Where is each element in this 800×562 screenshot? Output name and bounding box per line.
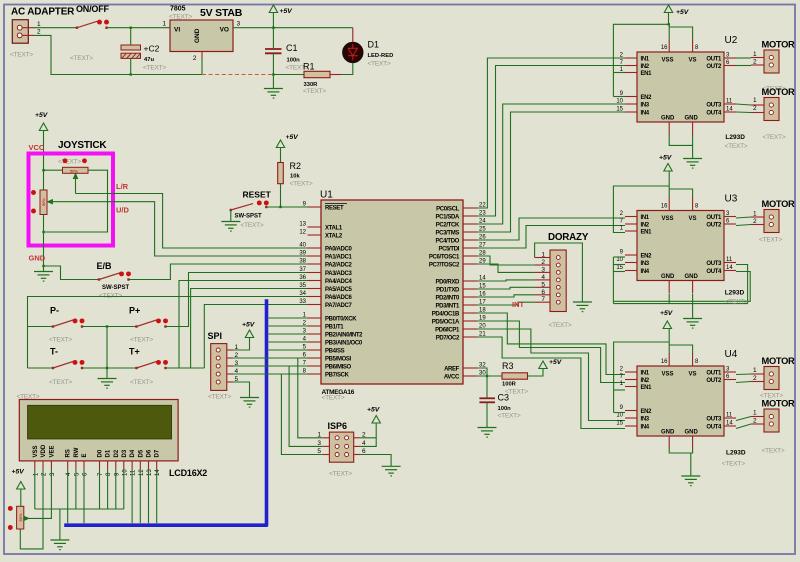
- wire R2 top lead: [280, 148, 282, 163]
- svg-text:PC7/TOSC2: PC7/TOSC2: [429, 262, 460, 268]
- +5V power symbol (ISP6): [372, 416, 380, 424]
- U1 pin 33 stub: [308, 304, 322, 306]
- switch P-: [52, 318, 85, 327]
- svg-text:D1: D1: [368, 40, 380, 50]
- +5V power symbol (U2): [664, 5, 672, 13]
- ground (LCD): [50, 540, 69, 550]
- svg-text:ON/OFF: ON/OFF: [76, 4, 109, 14]
- svg-text:<TEXT>: <TEXT>: [130, 379, 153, 386]
- capacitor C2: [121, 45, 141, 58]
- svg-text:MOTOR: MOTOR: [762, 399, 796, 409]
- wire L/R signal wire: [76, 194, 322, 249]
- wire PA7 riser: [204, 305, 321, 369]
- switch T-: [52, 360, 85, 369]
- wire C3 to ground: [486, 402, 488, 427]
- switch SW1 ON/OFF: [76, 20, 109, 29]
- svg-text:11: 11: [131, 469, 137, 476]
- wire pot LR left end to rail: [44, 169, 63, 171]
- U1 pin 16 stub: [463, 296, 477, 298]
- wire U2 EN2 wire: [613, 96, 625, 98]
- svg-text:VO: VO: [220, 27, 229, 34]
- wire U3 VS loop: [669, 189, 692, 198]
- svg-text:PD1/TXD: PD1/TXD: [436, 287, 460, 293]
- motor driver U4 L293D: [616, 353, 736, 449]
- wire LCD RS to bus: [67, 469, 69, 524]
- wire U3 GND1 join: [668, 294, 670, 304]
- svg-text:DORAZY: DORAZY: [548, 232, 589, 243]
- ground (U3): [683, 319, 702, 329]
- svg-text:2: 2: [37, 29, 41, 36]
- wire LCD VDD to pot bottom: [20, 469, 43, 549]
- LCD display LCD16X2: [19, 400, 178, 461]
- ground (buttons): [98, 379, 117, 389]
- wire ON/OFF to 7805 VI: [107, 27, 171, 29]
- connector J1 AC ADAPTER: [12, 20, 28, 44]
- svg-text:LCD16X2: LCD16X2: [169, 468, 207, 478]
- svg-text:RW: RW: [74, 447, 80, 457]
- wire C1 bottom lead: [272, 53, 274, 74]
- ISP6 pin6 stub: [354, 454, 361, 456]
- svg-text:PB1/T1: PB1/T1: [325, 324, 344, 330]
- wire PC3 to U2 IN4: [477, 112, 625, 232]
- svg-text:PB2/AIN0/INT2: PB2/AIN0/INT2: [325, 332, 363, 338]
- wire bus entry PB row 326: [269, 325, 308, 327]
- switch RESET SW-SPST: [230, 200, 269, 211]
- svg-text:L293D: L293D: [725, 290, 745, 297]
- U1 pin 24 stub: [463, 223, 477, 225]
- +5V power symbol (U4): [663, 321, 671, 329]
- wire U3 OUT3 loop: [736, 265, 748, 304]
- wire P- left wire: [28, 326, 54, 328]
- svg-text:PA6/ADC6: PA6/ADC6: [325, 295, 352, 301]
- svg-text:3: 3: [541, 266, 545, 273]
- svg-text:PB7/SCK: PB7/SCK: [325, 372, 350, 378]
- wire bus entry PB row 342: [269, 341, 308, 343]
- wire LCD gnd stem: [59, 509, 61, 540]
- wire U4 OUT2 to motor: [736, 382, 751, 383]
- wire U4 OUT4 to motor: [736, 424, 751, 429]
- potentiometer RV-UD vertical: [40, 190, 47, 215]
- U1 pin 14 stub: [463, 280, 477, 282]
- LCD pin RS stub: [67, 461, 69, 469]
- wire PC5 to U3 IN2: [477, 226, 625, 249]
- wire LCD gnd rail: [35, 508, 124, 510]
- svg-text:XTAL2: XTAL2: [325, 233, 343, 239]
- svg-text:<TEXT>: <TEXT>: [763, 134, 786, 141]
- svg-text:PB6/MISO: PB6/MISO: [325, 364, 352, 370]
- DORAZY pin 7 stub: [535, 301, 550, 303]
- ground (SPI): [240, 398, 259, 408]
- svg-text:<TEXT>: <TEXT>: [303, 88, 326, 95]
- U1 pin 2 stub: [308, 325, 322, 327]
- U1 pin 26 stub: [463, 239, 477, 241]
- wire bus entry PB row 318: [269, 317, 308, 319]
- U1 pin 5 stub: [308, 349, 322, 351]
- LCD pin D3 stub: [123, 461, 125, 469]
- svg-text:12: 12: [299, 230, 306, 236]
- wire U2 OUT4 to motor: [736, 111, 751, 114]
- U1 pin 8 stub: [308, 373, 322, 375]
- LCD pin VSS stub: [34, 461, 36, 469]
- wire J1 pin1 to ON/OFF switch: [34, 27, 77, 29]
- wire C2 top lead: [130, 28, 132, 45]
- wire T- right to center: [82, 367, 107, 369]
- svg-text:14: 14: [155, 469, 161, 476]
- svg-text:U4: U4: [725, 349, 738, 360]
- wire T+ left wire: [107, 367, 137, 369]
- U1 pin 30 stub: [463, 375, 477, 377]
- svg-text:+5V: +5V: [367, 407, 381, 414]
- switch P+: [135, 318, 168, 327]
- ground (C3): [478, 428, 497, 438]
- svg-text:5V STAB: 5V STAB: [200, 7, 243, 19]
- svg-text:+5V: +5V: [242, 322, 256, 329]
- svg-text:PC4/TDO: PC4/TDO: [435, 238, 459, 244]
- wire U4 EN1 wire: [614, 389, 625, 391]
- wire PC2 to U2 IN3: [477, 104, 625, 224]
- wire ISP6 pin2 to +5V: [360, 423, 376, 438]
- wire U3 bottom rail: [613, 303, 747, 305]
- svg-text:D1: D1: [106, 449, 112, 457]
- wire T- signal riser to PA5: [191, 289, 321, 369]
- ground (U4): [681, 476, 700, 486]
- U1 pin 7 stub: [308, 365, 322, 367]
- connector MOTOR (U4 lower): [751, 409, 779, 432]
- wire U3 VSS supply: [668, 171, 669, 198]
- wire R3 to +5V: [528, 369, 544, 377]
- resistor R3: [502, 373, 528, 379]
- svg-text:R2: R2: [290, 161, 302, 171]
- wire U4 VS loop: [669, 345, 692, 353]
- svg-text:PD2/INT0: PD2/INT0: [435, 295, 460, 301]
- svg-text:<TEXT>: <TEXT>: [10, 52, 33, 59]
- wire R1 to LED cathode: [341, 62, 353, 74]
- svg-text:12: 12: [139, 469, 145, 476]
- connector MOTOR (U2 lower): [751, 98, 779, 121]
- switch T+: [135, 360, 168, 369]
- capacitor C3: [479, 398, 495, 402]
- wire P- signal wire: [28, 297, 202, 369]
- U1 pin 36 stub: [308, 280, 322, 282]
- connector SPI: [211, 344, 227, 391]
- svg-text:<TEXT>: <TEXT>: [722, 461, 745, 468]
- DORAZY pin 6 stub: [535, 294, 550, 296]
- connector ISP6: [329, 432, 353, 462]
- svg-text:P-: P-: [50, 306, 59, 316]
- svg-text:MOTOR: MOTOR: [762, 40, 796, 50]
- wire PC7 to DORAZY 3: [477, 264, 535, 272]
- wire PD3 to DORAZY 7 INT: [477, 302, 535, 305]
- svg-text:<TEXT>: <TEXT>: [368, 61, 391, 68]
- motor driver U2 L293D: [616, 39, 736, 135]
- wire U3 EN2/IN3/IN4 common: [612, 257, 614, 304]
- svg-text:SPI: SPI: [208, 331, 223, 341]
- capacitor C1: [265, 49, 282, 53]
- wire U3 OUT1 to motor: [736, 217, 751, 218]
- svg-text:PA5/ADC5: PA5/ADC5: [325, 287, 352, 293]
- SPI pin 3 stub: [227, 365, 233, 367]
- svg-text:T-: T-: [50, 347, 58, 357]
- wire SPI pin3 MISO wire: [233, 365, 308, 367]
- wire U2 OUT3 to motor: [736, 104, 751, 105]
- +5V power symbol (LCD pot): [17, 482, 25, 490]
- +5V power symbol (U3): [664, 164, 672, 172]
- U1 pin 34 stub: [308, 296, 322, 298]
- svg-text:AVCC: AVCC: [444, 374, 460, 380]
- wire AVCC node to C3: [486, 376, 488, 398]
- svg-text:1: 1: [162, 21, 166, 28]
- dashed net wire (hidden supply rail): [202, 74, 273, 76]
- wire rail through vertical pot top: [43, 170, 45, 190]
- U1 pin 22 stub: [463, 207, 477, 209]
- R1 right lead: [330, 74, 341, 76]
- magenta highlight box around joystick: [29, 154, 114, 246]
- svg-text:5: 5: [541, 281, 545, 288]
- svg-text:<TEXT>: <TEXT>: [290, 181, 313, 188]
- svg-text:D5: D5: [138, 449, 144, 457]
- wire bus entry PB row 334: [269, 333, 308, 335]
- svg-text:PC0/SCL: PC0/SCL: [436, 206, 460, 212]
- ground (joystick): [34, 272, 53, 282]
- U1 pin 38 stub: [308, 263, 322, 265]
- wire LCD D4 to bus: [131, 469, 133, 524]
- svg-text:7: 7: [541, 296, 545, 303]
- wire SPI pin2 MOSI wire: [233, 357, 308, 359]
- svg-text:2: 2: [753, 59, 757, 66]
- J1 pin 1 stub: [23, 27, 35, 29]
- LCD screen: [28, 405, 172, 439]
- wire P- right to center: [82, 326, 107, 328]
- svg-text:<TEXT>: <TEXT>: [130, 337, 153, 344]
- svg-text:SW-SPST: SW-SPST: [102, 285, 130, 291]
- wire LCD VEE to pot wiper: [27, 469, 52, 519]
- LED D1 anode stub: [352, 28, 354, 43]
- wire ISP6 pin1 from MOSI: [298, 358, 323, 438]
- +5V power symbol (joystick): [39, 123, 47, 131]
- U1 pin 28 stub: [463, 255, 477, 257]
- svg-text:<TEXT>: <TEXT>: [241, 222, 264, 229]
- ground (ISP6): [382, 466, 401, 476]
- svg-text:GND: GND: [29, 254, 46, 263]
- wire PD7 to U4 IN4: [477, 337, 625, 429]
- J1 pin 2 stub: [23, 34, 35, 36]
- wire LCD VSS down: [34, 469, 36, 510]
- svg-text:36: 36: [299, 275, 306, 281]
- svg-text:<TEXT>: <TEXT>: [143, 65, 166, 72]
- wire U2 OUT2 to motor: [736, 65, 751, 67]
- DORAZY pin 3 stub: [535, 271, 550, 273]
- svg-text:<TEXT>: <TEXT>: [498, 413, 521, 420]
- wire rail tap to E/B switch: [44, 266, 100, 280]
- U1 pin 20 stub: [463, 328, 477, 330]
- svg-text:<TEXT>: <TEXT>: [762, 448, 785, 455]
- svg-text:2: 2: [753, 105, 757, 112]
- wire RESET switch to ground: [230, 210, 232, 222]
- svg-text:SW-SPST: SW-SPST: [235, 214, 263, 220]
- wire ISP6 pin6 to ground: [360, 455, 391, 467]
- svg-text:JOYSTICK: JOYSTICK: [58, 140, 107, 151]
- svg-text:D2: D2: [114, 449, 120, 457]
- svg-text:AREF: AREF: [444, 366, 460, 372]
- LCD pin VEE stub: [50, 461, 52, 469]
- svg-text:50%: 50%: [18, 513, 23, 521]
- svg-text:VI: VI: [174, 27, 180, 34]
- 7805 pin2 stub: [201, 52, 203, 59]
- U1 pin 35 stub: [308, 288, 322, 290]
- wire P+ signal to PA3: [166, 273, 322, 327]
- wire U2 VSS supply: [668, 13, 671, 40]
- wire U2 GND2 stub join: [692, 135, 694, 145]
- svg-text:1: 1: [753, 97, 757, 104]
- wire U4 GND stem: [690, 453, 692, 476]
- wire C2 bottom lead: [130, 58, 132, 74]
- wire AVCC wire to R3: [477, 375, 502, 377]
- wire U2 EN tie loop: [613, 24, 668, 96]
- potentiometer RV-contrast: [17, 506, 24, 529]
- svg-text:RESET: RESET: [243, 190, 272, 200]
- wire LCD D6 to bus: [148, 469, 150, 524]
- svg-text:100n: 100n: [287, 58, 301, 64]
- wire LCD D7 to bus: [156, 469, 158, 524]
- svg-text:+5V: +5V: [676, 9, 690, 16]
- wire U3 OUT2 to motor: [736, 225, 751, 226]
- connector MOTOR (U3): [751, 210, 779, 233]
- wire ISP6 pin4 to +5V: [360, 438, 376, 447]
- svg-text:35: 35: [299, 283, 306, 289]
- ground (RESET): [221, 222, 240, 232]
- U1 pin 27 stub: [463, 247, 477, 249]
- svg-text:<TEXT>: <TEXT>: [725, 298, 748, 305]
- svg-text:L/R: L/R: [116, 182, 129, 191]
- SPI pin 1 stub: [227, 349, 233, 351]
- contrast pot wiper arrow: [24, 516, 29, 520]
- svg-text:<TEXT>: <TEXT>: [725, 143, 748, 150]
- wire U2 GND join: [669, 135, 692, 159]
- voltage regulator U5 7805: [170, 20, 233, 52]
- wire 7805 GND pin to rail: [201, 58, 203, 75]
- svg-text:40: 40: [299, 243, 306, 249]
- svg-text:<TEXT>: <TEXT>: [49, 379, 72, 386]
- svg-text:PC3/TMS: PC3/TMS: [435, 230, 459, 236]
- resistor R1: [304, 71, 330, 77]
- DORAZY pin 1 stub: [535, 257, 550, 259]
- wire SPI pin4 SCK wire: [233, 373, 308, 375]
- svg-text:VEE: VEE: [49, 445, 55, 457]
- LCD pin E stub: [83, 461, 85, 469]
- svg-text:7805: 7805: [170, 6, 186, 13]
- svg-text:1: 1: [37, 21, 41, 28]
- wire U2 OUT1 to motor: [736, 57, 751, 59]
- wire U3 IN4 wire: [613, 271, 625, 273]
- svg-text:+5V: +5V: [286, 134, 300, 141]
- ISP6 pin1 stub: [323, 437, 330, 439]
- svg-text:PA7/ADC7: PA7/ADC7: [325, 303, 352, 309]
- svg-text:2: 2: [193, 55, 197, 62]
- LED D1 LED-RED: [343, 42, 363, 62]
- svg-text:13: 13: [147, 469, 153, 476]
- svg-text:VCC: VCC: [29, 143, 45, 152]
- ground (DORAZY): [573, 302, 592, 312]
- svg-text:1: 1: [541, 252, 545, 259]
- svg-text:2: 2: [753, 218, 757, 225]
- ground (U2): [683, 159, 702, 169]
- LCD pin D1 stub: [107, 461, 109, 469]
- wire SPI pin1 to +5V: [233, 338, 250, 351]
- wire RESET signal wire: [266, 206, 321, 208]
- svg-text:47u: 47u: [144, 57, 154, 63]
- wire bus entry PB row 350: [269, 349, 308, 351]
- potentiometer RV-LR horizontal: [63, 167, 89, 173]
- svg-text:E/B: E/B: [97, 261, 113, 271]
- U1 pin 23 stub: [463, 215, 477, 217]
- wire 7805 VO to +5V node: [233, 27, 353, 29]
- wire U3 GND2 join: [692, 294, 694, 319]
- svg-text:ISP6: ISP6: [328, 421, 348, 431]
- svg-text:AC ADAPTER: AC ADAPTER: [11, 7, 75, 18]
- svg-text:34: 34: [299, 291, 306, 297]
- U1 pin 13 stub: [308, 226, 322, 228]
- svg-text:INT: INT: [512, 300, 525, 309]
- wire T+ signal to PA4: [166, 281, 322, 369]
- svg-text:<TEXT>: <TEXT>: [208, 394, 231, 401]
- wire U4 EN2 wire: [614, 412, 625, 414]
- wire SPI pin5 to ground: [233, 382, 250, 398]
- ISP6 pin3 stub: [323, 445, 330, 447]
- wire PD2 to DORAZY 6: [477, 295, 535, 297]
- blue LCD bus: [66, 301, 267, 525]
- svg-text:+5V: +5V: [280, 8, 294, 15]
- ground (power rail): [264, 89, 283, 99]
- svg-text:50%: 50%: [70, 168, 78, 173]
- svg-text:<TEXT>: <TEXT>: [329, 471, 352, 478]
- svg-text:100R: 100R: [502, 382, 517, 388]
- svg-text:<TEXT>: <TEXT>: [759, 237, 782, 244]
- LCD pin D7 stub: [156, 461, 158, 469]
- U1 pin 32 stub: [463, 367, 477, 369]
- svg-text:T+: T+: [129, 347, 140, 357]
- svg-text:U/D: U/D: [116, 206, 130, 215]
- svg-text:+5V: +5V: [35, 112, 49, 119]
- svg-text:PD6/ICP1: PD6/ICP1: [435, 327, 460, 333]
- wire pot LR right end loop: [44, 170, 108, 232]
- wire PD4 to U4 IN1: [477, 313, 625, 375]
- U1 pin 40 stub: [308, 247, 322, 249]
- wire joystick gnd stem: [43, 266, 45, 272]
- svg-text:U2: U2: [725, 35, 738, 46]
- svg-text:P+: P+: [129, 306, 140, 316]
- red dots over horizontal pot: [63, 158, 68, 163]
- svg-text:PC2/TCK: PC2/TCK: [436, 222, 460, 228]
- wire C1 top lead: [272, 28, 274, 49]
- wire J1 pin2 down to bottom rail: [34, 35, 202, 74]
- svg-text:D0: D0: [98, 449, 104, 457]
- wire U4 GND join: [669, 449, 692, 453]
- wire U4 VSS supply: [667, 329, 669, 354]
- U1 pin 19 stub: [463, 320, 477, 322]
- SPI pin 4 stub: [227, 373, 233, 375]
- wire LCD D2 down: [115, 469, 117, 510]
- U1 pin 6 stub: [308, 357, 322, 359]
- svg-text:PD0/RXD: PD0/RXD: [435, 279, 460, 285]
- svg-text:L293D: L293D: [726, 450, 746, 457]
- ISP6 pin2 stub: [354, 437, 361, 439]
- LCD pin D4 stub: [131, 461, 133, 469]
- wire U4 OUT3 to motor: [736, 417, 751, 421]
- svg-text:PA2/ADC2: PA2/ADC2: [325, 262, 352, 268]
- connector MOTOR (U2 upper): [751, 50, 779, 73]
- svg-text:MOTOR: MOTOR: [762, 356, 796, 366]
- switch E/B: [98, 271, 131, 280]
